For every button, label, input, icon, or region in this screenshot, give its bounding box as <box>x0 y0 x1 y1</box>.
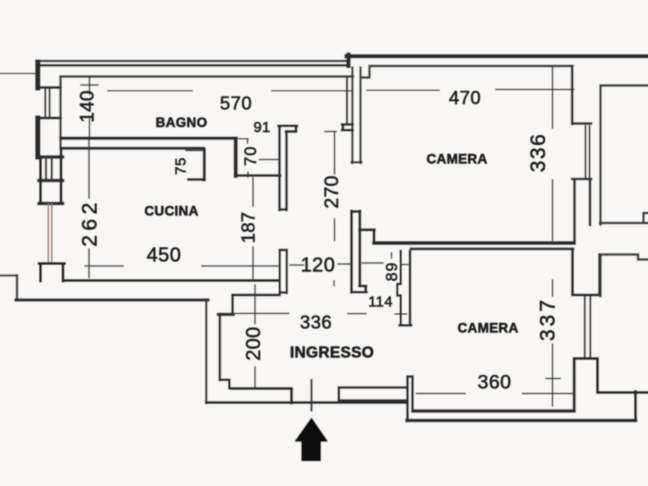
wall: CUCINA floor wall top face <box>63 279 279 282</box>
svg-text:187: 187 <box>237 212 258 243</box>
door tick: entrance door axis <box>310 380 312 411</box>
svg-text:337: 337 <box>537 297 560 341</box>
dimension 262 line <box>88 140 90 278</box>
wall: BAGNO/CUCINA wall top face <box>61 136 236 139</box>
dimension 360 line <box>417 393 573 395</box>
wall: camera door bracket at divider <box>342 124 353 130</box>
wire: neighbor wall line bottom right <box>598 391 648 394</box>
wall: left exterior wall upper pier <box>35 62 40 88</box>
dimension 140 line <box>81 78 98 138</box>
wall: bathroom door jamb <box>280 127 287 211</box>
dimension 470 line <box>367 89 574 92</box>
wire: off-plan line to left edge at y=275.5 <box>0 274 17 276</box>
wall: corridor right stub <box>352 211 361 292</box>
wall: CUCINA floor wall bottom face <box>16 298 208 301</box>
wall: BAGNO/CAMERA divider <box>352 68 362 164</box>
wall: CAMERA2 window upper pier <box>573 251 600 296</box>
svg-text:470: 470 <box>449 87 481 108</box>
wall: bathroom door jamb top hook <box>279 126 298 132</box>
wall: BAGNO/CUCINA wall bottom face <box>62 147 204 150</box>
wall: INGRESSO upper-left jog <box>218 295 234 315</box>
wall: CAMERA1 right lower pier <box>572 179 591 243</box>
svg-text:CUCINA: CUCINA <box>144 204 198 219</box>
wall: niche floor toward jamb <box>236 174 280 177</box>
svg-text:BAGNO: BAGNO <box>156 115 208 130</box>
svg-text:262: 262 <box>79 198 102 247</box>
wall: step from corridor stub to dividing wall <box>360 230 375 243</box>
dimension 200 line <box>254 285 256 387</box>
dimension 89 pointers <box>362 253 407 265</box>
wall: entrance-right stub <box>408 377 413 422</box>
wall: CAMERA1/CAMERA2 dividing wall top face <box>374 241 574 245</box>
svg-text:89: 89 <box>384 262 401 282</box>
dimension 336 (ingresso) line <box>218 312 366 314</box>
wall: niche right pier <box>234 139 238 177</box>
wall: INGRESSO floor wall bottom face (continuous) <box>206 401 407 404</box>
wall: top exterior wall left section (BAGNO) lower line <box>37 64 349 67</box>
wire: neighbor outline right side <box>601 86 648 225</box>
window W2 in left wall: frame boxes <box>39 157 63 204</box>
svg-text:INGRESSO: INGRESSO <box>290 345 374 362</box>
wire: off-plan party wall line top-left <box>0 73 37 75</box>
svg-text:91: 91 <box>253 120 270 136</box>
wire: neighbor step right edge <box>600 213 648 223</box>
wall: BAGNO top inner face <box>62 75 353 77</box>
wall: CUCINA niche bottom cap <box>189 178 205 181</box>
wall: top exterior wall right section (CAMERA) <box>347 54 648 58</box>
wall: INGRESSO floor wall top face left section <box>232 389 292 404</box>
svg-text:75: 75 <box>172 157 189 175</box>
dimension 450 line <box>85 265 278 267</box>
wall: CAMERA1/CAMERA2 dividing wall bottom face <box>411 247 573 250</box>
svg-text:270: 270 <box>321 175 343 208</box>
wall: INGRESSO outer left wall <box>205 300 207 404</box>
window W1 in left wall: frame <box>39 88 61 119</box>
wall: outer step down-left corner <box>16 276 18 300</box>
wall: INGRESSO top wall inner face <box>233 294 280 297</box>
arrow: entrance arrow <box>296 419 328 461</box>
wall: bottom-right corner step <box>634 392 637 421</box>
svg-text:360: 360 <box>477 372 511 394</box>
wall: left wall inner face (BAGNO + CUCINA) <box>59 77 61 149</box>
wall: thin double wall below window W2 <box>47 204 49 264</box>
wall: bottom exterior wall bottom face <box>407 419 636 423</box>
dimension 337 line <box>546 280 560 406</box>
wall: CUCINA niche left face <box>203 149 206 180</box>
svg-text:450: 450 <box>147 244 182 266</box>
dimension 570 line <box>108 90 351 92</box>
window W4 CAMERA2: glass lines <box>585 296 591 357</box>
svg-text:140: 140 <box>78 90 99 122</box>
window W1 glass lines <box>45 88 49 119</box>
dimension 270 line <box>325 132 336 241</box>
wall: CAMERA top inner face with notch to divider <box>361 66 573 78</box>
wall: corridor right stub foot <box>352 286 367 292</box>
window W3 CAMERA1: glass lines <box>586 126 590 178</box>
wall: INGRESSO left wall <box>219 315 222 380</box>
wall: bagno right wall hollow piece <box>346 77 348 124</box>
svg-text:CAMERA: CAMERA <box>457 321 518 336</box>
wall: INGRESSO left lower jog <box>220 380 230 389</box>
wall: CAMERA2 window lower pier <box>574 359 597 412</box>
wall: left exterior wall middle pier <box>35 118 40 157</box>
wall: top exterior wall left section (BAGNO) upper line <box>37 60 349 62</box>
wall: CAMERA2 door jamb right line and bottom cap <box>400 251 412 325</box>
svg-text:570: 570 <box>220 92 252 113</box>
svg-text:200: 200 <box>243 327 265 361</box>
wall: bottom exterior wall top face (CAMERA2 floor) <box>413 409 574 412</box>
wall: INGRESSO floor wall right section <box>339 388 407 403</box>
dimension 75 tick <box>186 150 203 152</box>
wall: CAMERA2 door jamb <box>397 251 400 325</box>
wall: CAMERA1 right inner face upper pier <box>572 66 591 124</box>
svg-text:CAMERA: CAMERA <box>426 152 487 167</box>
dimension 114 dashes <box>395 313 407 315</box>
window W2 glass lines <box>46 157 52 181</box>
dimension 120 dashes <box>290 264 351 286</box>
wall: "120" door left stub <box>280 250 287 293</box>
wall: bottom-left step block of CUCINA <box>39 264 65 282</box>
svg-text:336: 336 <box>527 133 550 173</box>
svg-text:336: 336 <box>300 311 332 332</box>
wall: top exterior wall step up at x=348 <box>346 55 350 67</box>
wire: neighbor wall below right <box>601 255 648 297</box>
dimension 70 ticks and pointer <box>239 139 279 177</box>
svg-text:120: 120 <box>301 254 336 276</box>
dimension 336 (camera1) line <box>552 66 554 240</box>
dimension 187 line <box>252 178 254 280</box>
svg-text:70: 70 <box>242 146 260 166</box>
svg-text:114: 114 <box>368 294 393 310</box>
